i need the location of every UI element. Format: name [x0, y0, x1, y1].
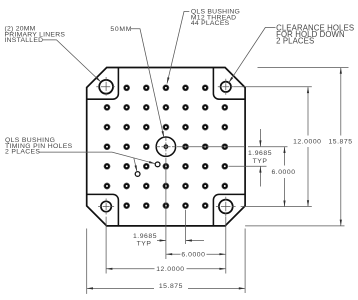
M12 bushing hole row6 col6: [203, 184, 207, 188]
dim 12.0000 right line: [307, 87, 309, 135]
dim 1.9685 bottom left arrow: [157, 240, 166, 242]
leader to liner hole: [43, 40, 101, 82]
M12 bushing hole row6 col2: [125, 184, 129, 188]
svg-text:TYP: TYP: [253, 158, 268, 165]
svg-text:12.0000: 12.0000: [293, 139, 321, 146]
M12 bushing hole row1 col3: [144, 86, 148, 90]
M12 bushing hole row7 col4: [164, 204, 168, 208]
M12 bushing hole row5 col6: [203, 164, 207, 168]
center pilot hole: [164, 145, 167, 148]
M12 bushing hole row1 col4: [164, 86, 168, 90]
M12 bushing hole row3 col7: [223, 125, 227, 129]
M12 bushing hole row3 col6: [203, 125, 207, 129]
svg-text:50MM: 50MM: [110, 26, 132, 33]
dim 15.875 right line: [340, 68, 342, 136]
svg-text:12.0000: 12.0000: [156, 266, 184, 273]
corner pad line bottom-right: [213, 194, 245, 226]
50mm counterbore circle: [156, 137, 175, 156]
leader branch to timing pin B: [134, 158, 137, 172]
M12 bushing hole row4 col6: [203, 145, 207, 149]
M12 bushing hole row6 col7: [223, 184, 227, 188]
corner pad line top-right: [213, 68, 245, 100]
M12 bushing hole row3 col1: [105, 125, 109, 129]
dim 6.0000 right line: [284, 147, 286, 165]
clearance hole top-right centerlines: [218, 86, 234, 88]
dim 12.0000 bottom line: [107, 268, 155, 270]
extension line bottom corner holes right: [241, 206, 312, 208]
20mm liner hole top-left: [99, 80, 113, 94]
svg-text:44 PLACES: 44 PLACES: [191, 20, 230, 27]
M12 bushing hole row3 col4: [164, 125, 168, 129]
M12 bushing hole row6 col5: [183, 184, 187, 188]
svg-text:6.0000: 6.0000: [181, 252, 205, 259]
center hole horizontal centerline: [156, 146, 245, 148]
extension line center row right: [248, 146, 288, 148]
M12 bushing hole row5 col5: [183, 164, 187, 168]
M12 bushing hole row7 col3: [144, 204, 148, 208]
M12 bushing hole row4 col3: [144, 145, 148, 149]
center hole vertical centerline: [165, 137, 167, 259]
M12 bushing hole row2 col6: [203, 105, 207, 109]
clearance hole top-right: [221, 82, 231, 92]
M12 bushing hole row2 col7: [223, 105, 227, 109]
extension line plate left bottom: [86, 229, 88, 294]
M12 bushing hole row2 col2: [125, 105, 129, 109]
extension line plate right bottom: [244, 229, 246, 294]
liner hole top-left centerlines: [96, 86, 116, 88]
svg-text:INSTALLED: INSTALLED: [5, 37, 44, 44]
clearance hole bottom-left centerlines: [98, 206, 114, 208]
M12 bushing hole row4 col2: [125, 145, 129, 149]
M12 bushing hole row7 col6: [203, 204, 207, 208]
svg-text:15.875: 15.875: [328, 139, 352, 146]
svg-text:1.9685: 1.9685: [248, 150, 272, 157]
extension line top corner holes right: [234, 86, 312, 88]
M12 bushing hole row2 col3: [144, 105, 148, 109]
M12 bushing hole row4 col7: [223, 145, 227, 149]
M12 bushing hole row1 col5: [183, 86, 187, 90]
20mm liner hole bottom-right: [219, 200, 233, 214]
extension line plate top right: [258, 67, 349, 69]
plate outline: [87, 68, 245, 226]
M12 bushing hole row5 col7: [223, 164, 227, 168]
corner pad line bottom-left: [87, 194, 119, 226]
M12 bushing hole row2 col5: [183, 105, 187, 109]
M12 bushing hole row4 col5: [183, 145, 187, 149]
svg-text:6.0000: 6.0000: [271, 169, 295, 176]
M12 bushing hole row2 col4: [164, 105, 168, 109]
svg-text:1.9685: 1.9685: [133, 233, 157, 240]
leader timing pin holes: [39, 152, 156, 164]
M12 bushing hole row6 col3: [144, 184, 148, 188]
M12 bushing hole row7 col5: [183, 204, 187, 208]
leader clearance holes: [229, 28, 276, 83]
M12 bushing hole row5 col3: [144, 164, 148, 168]
leader qls bushing to grid hole: [167, 12, 189, 84]
dim 15.875 bottom line: [87, 287, 154, 289]
M12 bushing hole row4 col1: [105, 145, 109, 149]
extension line right corner holes bottom: [225, 217, 227, 274]
M12 bushing hole row2 col1: [105, 105, 109, 109]
M12 bushing hole row7 col2: [125, 204, 129, 208]
timing pin hole B: [135, 172, 140, 177]
extension line left corner holes bottom: [105, 217, 107, 274]
extension line plate bottom right: [245, 225, 344, 227]
clearance hole bottom-left: [101, 201, 111, 211]
svg-text:2 PLACES: 2 PLACES: [5, 149, 40, 156]
M12 bushing hole row5 col4: [164, 164, 168, 168]
M12 bushing hole row1 col2: [125, 86, 129, 90]
corner pad line top-left: [87, 68, 119, 100]
svg-text:TYP: TYP: [137, 240, 152, 247]
liner hole bottom-right centerlines: [216, 206, 236, 208]
M12 bushing hole row3 col2: [125, 125, 129, 129]
timing pin hole A: [155, 162, 160, 167]
M12 bushing hole row6 col4: [164, 184, 168, 188]
M12 bushing hole row6 col1: [105, 184, 109, 188]
dim 6.0000 bottom line: [166, 253, 180, 255]
M12 bushing hole row3 col3: [144, 125, 148, 129]
M12 bushing hole row3 col5: [183, 125, 187, 129]
dim 1.9685 bottom right arrow: [186, 240, 204, 242]
svg-text:2 PLACES: 2 PLACES: [276, 37, 314, 46]
extension line row5 right: [229, 165, 267, 167]
M12 bushing hole row1 col6: [203, 86, 207, 90]
dim 1.9685 right upper arrow: [259, 129, 261, 146]
M12 bushing hole row5 col1: [105, 164, 109, 168]
leader 50mm to center hole: [131, 29, 164, 138]
svg-text:15.875: 15.875: [159, 283, 183, 290]
M12 bushing hole row5 col2: [125, 164, 129, 168]
dim 1.9685 right lower arrow: [259, 166, 261, 186]
extension line col5 bottom: [185, 210, 187, 244]
